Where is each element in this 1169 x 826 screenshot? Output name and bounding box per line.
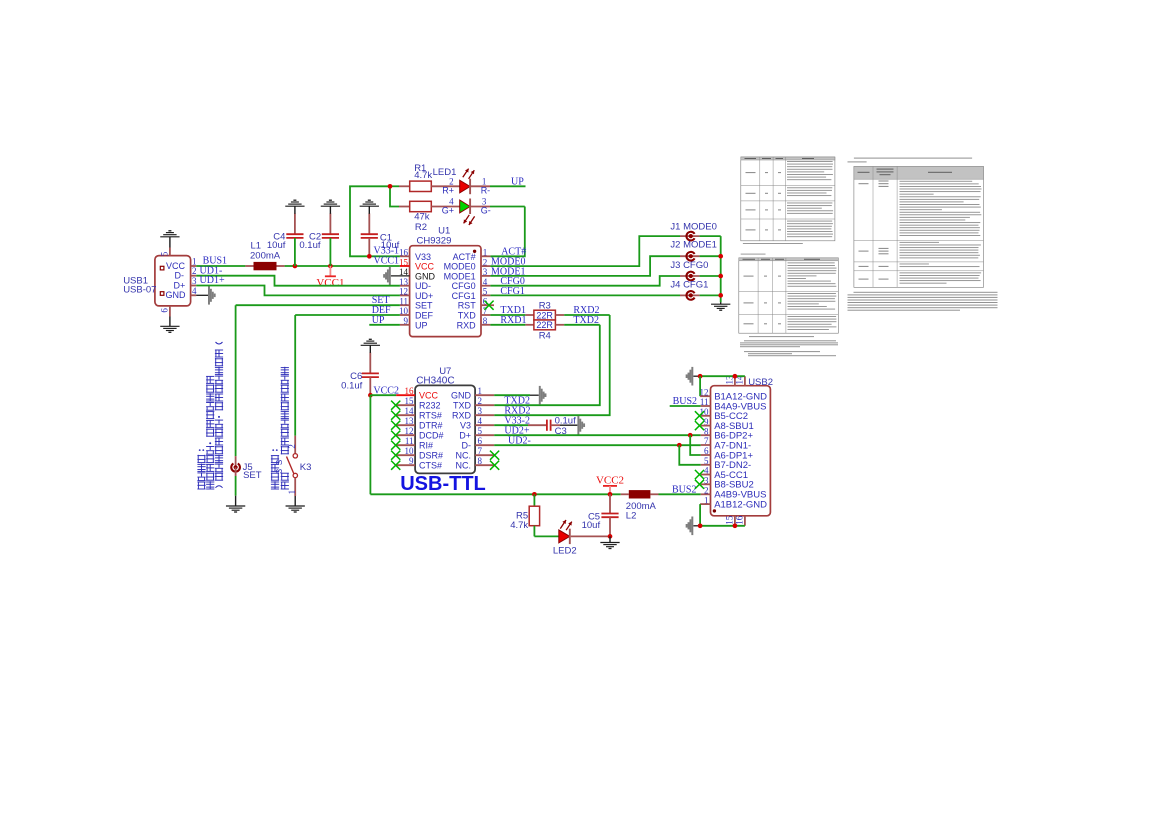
U1 pin10 stub <box>400 314 410 316</box>
svg-text:GND: GND <box>451 390 472 400</box>
svg-text:UP: UP <box>415 320 428 330</box>
USB2 pin6 stub <box>701 454 711 456</box>
LED2 element <box>559 529 610 544</box>
table A (top-left doc table) <box>741 157 835 241</box>
svg-text:UD2-: UD2- <box>508 435 531 446</box>
jumper pad J4 <box>686 291 694 300</box>
switch K3 <box>287 436 298 496</box>
capacitor C1 <box>361 213 378 256</box>
svg-text:R232: R232 <box>419 400 441 410</box>
resistor R1 <box>399 181 460 191</box>
R4 label <box>539 330 551 341</box>
wire USB2 bottom shell to ground <box>693 525 745 527</box>
wire DEF: K3 to U1.10 <box>295 315 400 436</box>
svg-text:VCC: VCC <box>166 261 186 271</box>
svg-text:DSR#: DSR# <box>419 450 443 460</box>
LED1 label <box>433 167 457 178</box>
svg-text:3: 3 <box>275 468 284 473</box>
ground at USB1 pin4 (gray) <box>196 286 215 305</box>
svg-text:R4: R4 <box>539 330 551 341</box>
jumper pad J1 <box>686 232 694 241</box>
wire RXD1: U1.8 to R4 <box>490 324 534 326</box>
wire TXD1: U1.7 to R3 <box>490 314 534 316</box>
junction UD2+ branch <box>688 433 693 438</box>
LED2 emission arrows <box>560 520 572 530</box>
junction rail/J3 <box>718 274 723 279</box>
svg-text:UD1+: UD1+ <box>200 275 225 286</box>
wire VCC2: junction to U7.16 <box>370 394 396 396</box>
svg-text:NC.: NC. <box>456 460 472 470</box>
USB2 pin3 stub + X <box>695 480 711 489</box>
svg-text:0.1uf: 0.1uf <box>341 381 362 392</box>
junction at C2/VCC1 flag <box>328 264 333 269</box>
svg-text:RXD: RXD <box>457 320 477 330</box>
USB2 pin names <box>714 392 767 511</box>
svg-text:4: 4 <box>192 286 197 296</box>
LED2 label <box>553 546 577 557</box>
USB1 ref labels <box>123 275 156 295</box>
svg-text:DTR#: DTR# <box>419 420 443 430</box>
svg-text:BUS2: BUS2 <box>672 485 696 496</box>
svg-text:D-: D- <box>462 440 472 450</box>
svg-text:10uf: 10uf <box>582 520 601 531</box>
U7 left pin numbers 16-9 <box>405 386 415 466</box>
junction USB2 top 2 <box>733 374 738 379</box>
LED1 pin labels 4/G+ 3/G- <box>442 197 491 216</box>
net label UD1+ <box>200 275 225 286</box>
svg-text:RI#: RI# <box>419 440 433 450</box>
resistor R4 (22R) <box>534 320 556 330</box>
label J2 MODE1 <box>670 239 716 250</box>
net label MODE0 <box>491 257 525 268</box>
svg-text:K3: K3 <box>300 462 312 473</box>
paragraph below table C <box>848 292 998 311</box>
wire CFG0: U1.4 to J3 <box>490 276 720 286</box>
ground below jumper rail <box>711 302 730 310</box>
svg-text:UD-: UD- <box>415 281 431 291</box>
U7 NC pins 15-9 stubs with X <box>391 401 415 410</box>
svg-text:10uf: 10uf <box>267 240 286 251</box>
USB2 pin9 stub + X <box>695 421 711 430</box>
svg-text:16: 16 <box>735 515 745 525</box>
USB2 pin numbers 12-1 <box>700 387 710 505</box>
U7 right pin names <box>451 390 472 470</box>
junction VCC2/C6 <box>368 393 373 398</box>
wire J5 to ground <box>235 467 237 495</box>
svg-text:CH340C: CH340C <box>416 375 454 386</box>
U7 right pin numbers 1-8 <box>478 386 483 466</box>
K3 labels <box>287 444 311 494</box>
J5 labels <box>243 462 262 481</box>
junction at C1/U1 pin16 <box>367 254 372 259</box>
net label UD1- <box>200 265 223 276</box>
wire ACT# : LED1 green cathode to U1 pin1 <box>490 207 525 257</box>
junction at R1/R2 split <box>388 184 393 189</box>
svg-text:5: 5 <box>160 251 170 256</box>
resistor R5 <box>529 494 539 536</box>
svg-text:22R: 22R <box>536 310 553 320</box>
svg-text:R2: R2 <box>415 222 427 233</box>
svg-text:UP: UP <box>372 315 385 326</box>
USB2 top shell pins (13,14) <box>725 375 745 386</box>
svg-text:22R: 22R <box>536 320 553 330</box>
svg-text:1: 1 <box>287 490 297 495</box>
C4 value labels <box>267 232 286 251</box>
net label BUS2 (at USB2.11) <box>673 396 697 407</box>
ground above C4 <box>285 200 304 214</box>
wire V33-1 feed: junction to R1/R2 and down to U1 pin16 <box>350 186 400 256</box>
U1 pin14 stub + gray ground <box>383 267 409 286</box>
inductor L1 <box>254 262 277 270</box>
wire R5 to LED2 <box>534 535 558 537</box>
LED1 red emission arrows <box>463 169 475 179</box>
C6 value labels <box>341 371 362 391</box>
svg-text:0.1uf: 0.1uf <box>299 240 320 251</box>
capacitor C3 <box>547 420 560 431</box>
svg-text:CFG1: CFG1 <box>500 286 524 297</box>
L1 value labels <box>250 241 281 262</box>
U7 pin16 stub (VCC) <box>396 394 415 396</box>
svg-text:ACT#: ACT# <box>453 252 476 262</box>
wire USB2 pin12 to top ground <box>700 376 710 396</box>
net label CFG0 <box>500 276 524 287</box>
label USB-TTL <box>400 473 486 495</box>
net label RXD2 (at U7.3) <box>504 405 530 416</box>
U1 ref labels <box>417 226 452 247</box>
svg-text:GND: GND <box>415 271 436 281</box>
USB1 pin 5 (rotated number + stub) <box>160 248 170 257</box>
U7 ref labels <box>416 366 454 387</box>
wire SET: J5 to U1.11 <box>236 304 400 306</box>
net label UP (at U1.9) <box>372 315 385 326</box>
junction rail/J2 <box>718 254 723 259</box>
connector USB1 (USB-07) <box>155 256 191 306</box>
svg-text:CTS#: CTS# <box>419 460 442 470</box>
U7 pin4 stub + wire V33-2 to C3 <box>475 424 547 426</box>
svg-text:RXD: RXD <box>452 410 472 420</box>
L2 value labels <box>626 501 657 522</box>
LED1 green emission arrows <box>464 215 475 225</box>
table B intro line <box>741 254 766 255</box>
U7 pin8 stub + X <box>475 461 499 470</box>
USB1 pin 6 (rotated number + stub) <box>160 306 170 317</box>
C5 value labels <box>582 512 601 532</box>
junction C5/LED2/ground <box>608 534 613 539</box>
U7 pin6 stub + wire UD2- <box>475 444 701 446</box>
wire VCC1 rail: L1 to U1 pin15 <box>277 265 400 267</box>
wire UD2+ branch to USB2 pin6 <box>690 435 701 455</box>
ground USB2 bottom (gray) <box>686 517 694 536</box>
power flag VCC2 (bottom) <box>596 475 624 495</box>
svg-text:200mA: 200mA <box>250 251 281 262</box>
wire BUS2: L2 to USB2.2 <box>650 493 700 495</box>
junction at C4/rail <box>293 264 298 269</box>
label J1 MODE0 <box>670 221 716 232</box>
net label UP (top) <box>511 176 524 187</box>
wire MODE1: U1.3 to J2 <box>490 256 720 276</box>
net label SET (at U1.11) <box>372 295 390 306</box>
ground below J5 <box>226 496 245 512</box>
resistor R3 (22R) <box>534 310 556 320</box>
IC U7 CH340C body <box>415 385 475 473</box>
svg-text:D+: D+ <box>459 430 471 440</box>
svg-text:15: 15 <box>725 515 735 525</box>
svg-text:VCC: VCC <box>419 390 439 400</box>
net label DEF (at U1.10) <box>372 305 391 316</box>
U7 pin2 stub <box>475 404 494 406</box>
jumper pad J3 <box>686 272 694 281</box>
svg-text:VCC2: VCC2 <box>596 475 624 487</box>
capacitor C5 <box>601 494 618 536</box>
svg-text:GND: GND <box>166 290 187 300</box>
ground USB2 top (gray) <box>686 367 694 386</box>
net label V33-1 <box>374 245 400 256</box>
svg-text:D+: D+ <box>174 280 186 290</box>
U1 left pin names <box>415 252 436 331</box>
U1 pin11 stub <box>400 304 410 306</box>
U1 right pin numbers 1-8 <box>483 248 488 327</box>
svg-text:RST: RST <box>458 301 477 311</box>
svg-text:R-: R- <box>481 185 491 195</box>
LED1 green element <box>460 199 490 215</box>
junction VCC2/C5 <box>608 492 613 497</box>
junction USB2 bottom 1 <box>698 523 703 528</box>
svg-text:A1B12-GND: A1B12-GND <box>714 500 767 511</box>
op IC U1 CH9329 body <box>410 246 481 337</box>
ground right of C3 (gray) <box>560 416 585 435</box>
svg-text:DEF: DEF <box>415 311 434 321</box>
table B (bottom-left doc table) <box>739 258 839 333</box>
svg-text:VCC: VCC <box>415 262 435 272</box>
note: K3 reset text (vertical Chinese) <box>271 367 289 490</box>
svg-text:V33: V33 <box>415 252 431 262</box>
svg-text:RXD1: RXD1 <box>500 315 526 326</box>
U7 left pin names <box>419 390 444 470</box>
svg-text:USB-07: USB-07 <box>123 285 156 296</box>
svg-text:TXD: TXD <box>453 400 472 410</box>
svg-text:SET: SET <box>415 301 433 311</box>
svg-text:4.7k: 4.7k <box>510 520 528 531</box>
R2 labels <box>414 212 430 234</box>
net label V33-2 <box>504 415 530 426</box>
U1 right stubs 1-5,7,8 <box>481 256 490 325</box>
USB2 pin2 stub <box>701 493 711 495</box>
resistor R2 <box>399 201 460 211</box>
wire BUS1: USB1.1 to L1 <box>196 265 253 267</box>
svg-text:3: 3 <box>192 276 197 286</box>
net label RXD2 (top) <box>573 305 599 316</box>
wire TXD2: R4 to U7.2 <box>494 325 600 405</box>
svg-text:J1 MODE0: J1 MODE0 <box>670 221 716 232</box>
U7 pin5 stub + wire UD2+ <box>475 434 701 436</box>
svg-text:G+: G+ <box>442 205 454 215</box>
svg-text:D-: D- <box>175 271 185 281</box>
wire SET vertical to J5 <box>235 305 237 467</box>
wire BUS2 stub at USB2 pin11 <box>670 405 711 407</box>
ground below USB1 <box>160 317 179 333</box>
ground above C1 <box>360 200 379 214</box>
svg-text:BUS2: BUS2 <box>673 396 697 407</box>
wire UP (LED1 red cathode) <box>490 185 526 187</box>
junction USB2 top 1 <box>698 374 703 379</box>
USB2 pin8 stub <box>701 434 711 436</box>
USB2 pin10 stub + X <box>695 411 711 420</box>
svg-text:CFG0: CFG0 <box>452 281 476 291</box>
paragraph top right (2 lines) <box>848 158 973 163</box>
C3 value labels <box>555 416 576 437</box>
U1 pin12 stub <box>400 294 410 296</box>
svg-text:2: 2 <box>192 266 197 276</box>
U1 pin13 stub <box>400 285 410 287</box>
junction R5/rail <box>532 492 537 497</box>
net label MODE1 <box>491 266 525 277</box>
svg-text:USB2: USB2 <box>748 377 773 388</box>
label J4 CFG1 <box>670 279 708 290</box>
svg-text:DCD#: DCD# <box>419 430 444 440</box>
svg-text:6: 6 <box>160 308 170 313</box>
USB2 bottom shell pins (15,16) <box>725 515 745 526</box>
net label UD2- <box>508 435 531 446</box>
U1 pin9 stub <box>400 324 410 326</box>
jumper pad J5 <box>231 464 240 472</box>
U7 pin3 stub <box>475 414 494 416</box>
svg-text:CFG1: CFG1 <box>452 291 476 301</box>
note: J5 configuration text (vertical Chinese) <box>197 342 223 489</box>
LED1 pin labels 2/R+ 1/R- <box>442 177 490 196</box>
svg-text:G-: G- <box>481 205 491 215</box>
paragraph below table B <box>740 336 838 356</box>
net label TXD2 (top) <box>573 315 599 326</box>
svg-text:VCC1: VCC1 <box>374 255 400 266</box>
svg-text:L2: L2 <box>626 511 637 522</box>
connector USB2 body <box>711 386 771 516</box>
svg-text:J3 CFG0: J3 CFG0 <box>670 260 708 271</box>
USB2 pin4 stub + X <box>695 470 711 479</box>
wire CFG1: U1.5 to J4 <box>490 294 720 296</box>
svg-text:UP: UP <box>511 176 524 187</box>
wire UD1+: USB1.3 to U1.12 <box>196 286 400 296</box>
capacitor C6 <box>362 353 379 396</box>
C2 value labels <box>299 232 321 251</box>
wire UD2- branch to USB2 pin5 <box>679 445 700 465</box>
svg-text:J4 CFG1: J4 CFG1 <box>670 279 708 290</box>
USB1 pin stubs 1-4 <box>191 266 197 295</box>
svg-text:1: 1 <box>192 256 197 266</box>
U1 pin15 stub (VCC) <box>400 265 410 267</box>
svg-text:TXD: TXD <box>458 311 477 321</box>
label J3 CFG0 <box>670 260 708 271</box>
wire MODE0: U1.2 to J1 <box>490 236 720 266</box>
R5 labels <box>510 511 528 531</box>
net label UD2+ <box>504 425 529 436</box>
svg-text:V3: V3 <box>460 420 471 430</box>
USB1 pin numbers 1-4 <box>192 256 197 295</box>
U7 pin7 stub + X <box>475 451 499 460</box>
net label BUS1 <box>203 256 227 267</box>
USB2 ref label <box>748 377 773 388</box>
net label BUS2 (bottom) <box>672 485 696 496</box>
wire UP stub at U1.9 <box>369 324 400 326</box>
junction UD2- branch <box>677 443 682 448</box>
ground above USB1 <box>160 231 179 248</box>
svg-text:47k: 47k <box>414 212 430 223</box>
U7 pin1 stub + gray ground <box>475 386 546 405</box>
wire VCC2 vertical + bottom rail <box>370 395 628 494</box>
wire jumper common rail <box>720 236 722 302</box>
net label ACT# <box>501 246 526 257</box>
U1 pin16 stub <box>400 255 410 257</box>
svg-text:MODE1: MODE1 <box>444 271 476 281</box>
net label VCC2 (at U7.16) <box>373 385 399 396</box>
C1 value labels <box>380 233 400 251</box>
svg-text:SET: SET <box>243 470 262 481</box>
net label TXD2 (at U7.2) <box>504 395 530 406</box>
power flag VCC1 <box>316 266 344 289</box>
svg-text:R3: R3 <box>539 301 551 312</box>
jumper pad J2 <box>686 252 694 261</box>
net label TXD1 <box>500 305 526 316</box>
svg-text:TXD2: TXD2 <box>573 315 599 326</box>
svg-text:VCC1: VCC1 <box>316 277 344 289</box>
junction USB2 bottom 2 <box>733 523 738 528</box>
U1 right pin names <box>444 252 477 331</box>
svg-text:RTS#: RTS# <box>419 410 442 420</box>
wire USB2 top shell to ground <box>693 375 745 377</box>
svg-text:LED2: LED2 <box>553 546 577 557</box>
svg-text:MODE0: MODE0 <box>444 262 476 272</box>
svg-text:S: S <box>275 460 284 465</box>
svg-text:J2 MODE1: J2 MODE1 <box>670 239 716 250</box>
U1 left pin numbers 16-9 <box>399 248 409 327</box>
table C (right doc table) <box>854 167 984 288</box>
USB2 pin7 stub <box>701 444 711 446</box>
R3 label <box>539 301 551 312</box>
U1 pin6 RST stub + no-connect X <box>481 301 494 310</box>
ground above C2 <box>321 200 340 214</box>
ground below C5 <box>600 536 619 548</box>
wire UD1-: USB1.2 to U1.13 <box>196 276 400 286</box>
svg-text:4.7k: 4.7k <box>414 170 432 181</box>
svg-text:NC.: NC. <box>456 450 472 460</box>
capacitor C4 <box>286 213 303 266</box>
ground below K3 <box>286 496 305 512</box>
ground above C6 <box>361 339 380 353</box>
net label CFG1 <box>500 286 524 297</box>
svg-text:UD+: UD+ <box>415 291 433 301</box>
LED1 red element <box>460 179 490 195</box>
USB2 pin1 stub + wire to bottom ground <box>700 504 710 526</box>
net label RXD1 <box>500 315 526 326</box>
R1 labels <box>414 163 432 181</box>
net label VCC1 (at U1 pin15) <box>374 255 400 266</box>
inductor L2 <box>629 490 651 498</box>
wire RXD2: R3 to U7.3 <box>494 315 610 415</box>
svg-text:R+: R+ <box>442 185 454 195</box>
svg-text:USB-TTL: USB-TTL <box>400 473 486 495</box>
capacitor C2 <box>322 213 339 266</box>
table A caption line <box>743 243 803 244</box>
USB2 pin5 stub <box>701 464 711 466</box>
svg-text:CH9329: CH9329 <box>417 236 452 247</box>
junction rail/J4 <box>718 293 723 298</box>
